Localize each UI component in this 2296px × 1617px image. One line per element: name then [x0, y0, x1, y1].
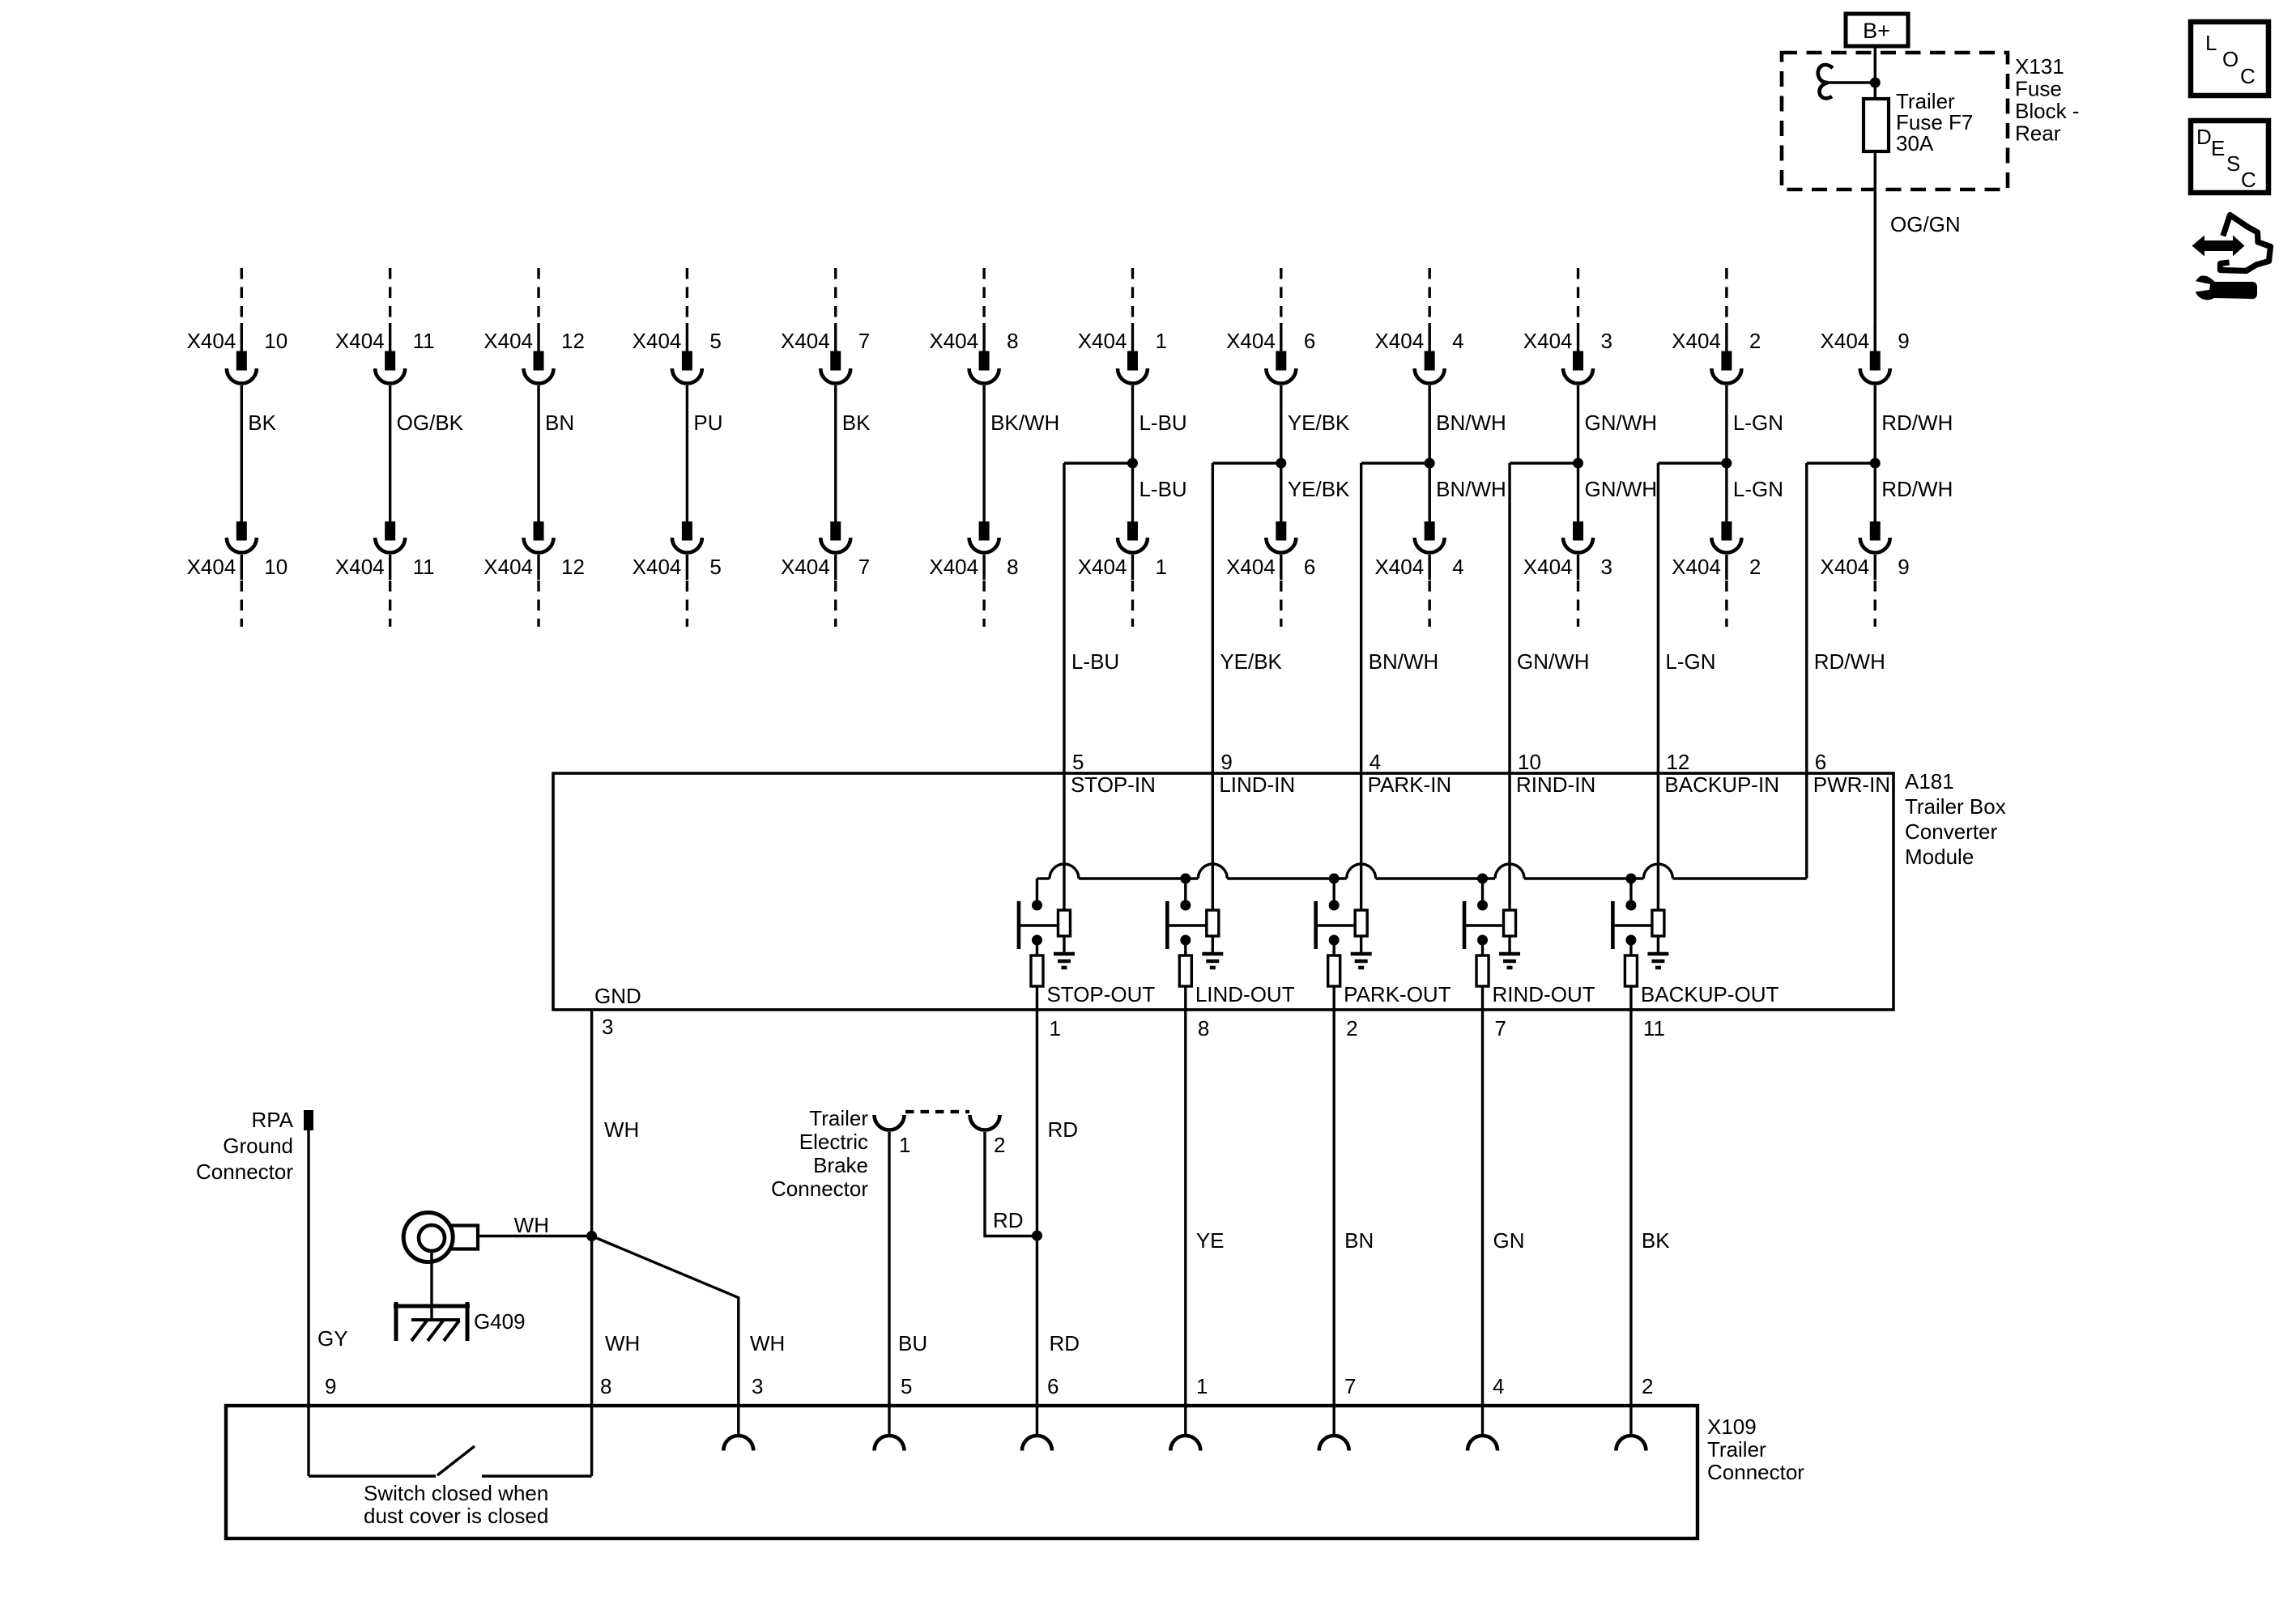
svg-text:RD/WH: RD/WH [1881, 411, 1953, 435]
wire BN [537, 385, 539, 521]
wire RD brake pin 2 to junction [985, 1132, 1037, 1236]
fuse clip hook [1818, 65, 1833, 98]
wire bus start corner [1037, 877, 1050, 879]
DESC box [2191, 121, 2268, 193]
svg-text:Converter: Converter [1905, 819, 1997, 844]
svg-text:9: 9 [1898, 329, 1909, 353]
svg-text:D: D [2196, 125, 2212, 149]
svg-text:1: 1 [899, 1133, 910, 1157]
svg-text:BN/WH: BN/WH [1369, 649, 1439, 674]
connector X404 pin 4 bottom [1374, 521, 1463, 627]
module A181 Trailer Box Converter Module box [553, 773, 1893, 1010]
svg-text:GN/WH: GN/WH [1517, 649, 1590, 674]
ground [1351, 954, 1372, 968]
svg-text:C: C [2240, 64, 2256, 88]
bus hop arc over PARK-IN [1347, 864, 1376, 879]
connector X404 pin 8 top [929, 268, 1018, 384]
svg-text:RD: RD [1049, 1331, 1080, 1355]
wire RD STOP-OUT to X109 [1036, 1010, 1038, 1436]
bus hop arc over BACKUP-IN [1643, 864, 1672, 879]
svg-text:BK: BK [1642, 1228, 1670, 1253]
wire YE to X109 [1184, 1010, 1186, 1436]
wire GY RPA to switch [307, 1130, 309, 1476]
svg-text:STOP-OUT: STOP-OUT [1046, 982, 1155, 1006]
svg-text:12: 12 [561, 329, 585, 353]
connector X404 pin 2 top [1672, 268, 1761, 384]
svg-text:3: 3 [752, 1374, 763, 1398]
svg-text:PARK-IN: PARK-IN [1368, 772, 1452, 797]
svg-text:9: 9 [325, 1374, 336, 1398]
wire PU [686, 385, 688, 521]
wire WH GND to switch [590, 1010, 593, 1476]
svg-text:BACKUP-OUT: BACKUP-OUT [1641, 982, 1779, 1006]
module pin 9 LIND-IN [1212, 750, 1295, 910]
junction bus PARK [1329, 874, 1340, 884]
wire OG/BK [389, 385, 391, 521]
wire branch YE/BK to module [1212, 463, 1281, 773]
svg-text:OG/BK: OG/BK [397, 411, 464, 435]
svg-text:Rear: Rear [2015, 121, 2061, 146]
dashed connector body [905, 1110, 969, 1113]
wire BU to X109 [888, 1132, 890, 1436]
svg-text:X404: X404 [1821, 329, 1870, 353]
wire WH ring to junction [478, 1235, 592, 1237]
svg-text:3: 3 [1601, 555, 1612, 579]
svg-text:11: 11 [1643, 1016, 1665, 1040]
svg-text:L-BU: L-BU [1139, 411, 1186, 435]
svg-text:X404: X404 [1078, 329, 1127, 353]
transistor STOP driver [1019, 900, 1071, 953]
svg-text:8: 8 [1007, 329, 1018, 353]
svg-text:O: O [2222, 47, 2238, 71]
terminal X109 [1467, 1436, 1497, 1451]
junction node RD/WH [1870, 458, 1881, 469]
wire bus drop to transistor [1184, 879, 1186, 905]
service icon arrow [2192, 215, 2271, 300]
label X109 Trailer Connector [1707, 1415, 1804, 1484]
junction bus BACKUP [1625, 874, 1636, 884]
svg-text:X404: X404 [929, 555, 978, 579]
svg-text:X404: X404 [1226, 329, 1276, 353]
wire bus segment [1524, 877, 1643, 879]
svg-text:X404: X404 [187, 555, 236, 579]
svg-text:6: 6 [1815, 750, 1826, 774]
svg-text:3: 3 [602, 1015, 613, 1039]
junction node YE/BK [1276, 458, 1286, 469]
ground [1054, 954, 1075, 968]
bus hop arc over STOP-IN [1050, 864, 1079, 879]
wire GN/WH [1577, 385, 1579, 521]
svg-text:1: 1 [1049, 1016, 1060, 1040]
ground [1647, 954, 1668, 968]
module pin 12 BACKUP-IN [1658, 750, 1779, 910]
svg-text:5: 5 [1072, 750, 1084, 774]
svg-text:7: 7 [1344, 1374, 1356, 1398]
ground [1202, 954, 1223, 968]
svg-text:GN/WH: GN/WH [1585, 477, 1658, 501]
svg-text:X404: X404 [1672, 329, 1721, 353]
svg-text:6: 6 [1304, 555, 1315, 579]
connector X404 pin 10 top [187, 268, 288, 384]
svg-text:Connector: Connector [771, 1177, 868, 1201]
label Trailer Fuse F7 30A [1896, 89, 1973, 155]
svg-text:L-GN: L-GN [1733, 477, 1783, 501]
svg-text:4: 4 [1370, 750, 1381, 774]
svg-text:B+: B+ [1863, 19, 1890, 43]
resistor LIND output [1179, 940, 1191, 1010]
svg-text:X404: X404 [1374, 329, 1424, 353]
svg-text:X109: X109 [1707, 1415, 1757, 1439]
junction in fuse block [1870, 78, 1881, 88]
wire hook to junction [1827, 81, 1875, 83]
junction node L-BU [1127, 458, 1138, 469]
connector X404 pin 12 bottom [483, 521, 585, 627]
resistor RIND output [1476, 940, 1489, 1010]
transistor RIND driver [1464, 900, 1516, 953]
wire bus drop to transistor [1629, 879, 1632, 905]
svg-text:10: 10 [264, 329, 288, 353]
junction node L-GN [1721, 458, 1732, 469]
svg-text:YE: YE [1196, 1228, 1225, 1253]
svg-text:5: 5 [709, 329, 721, 353]
svg-text:Switch closed when: Switch closed when [364, 1481, 548, 1505]
wire L-GN [1725, 385, 1727, 521]
wire bus segment [1376, 877, 1495, 879]
svg-text:X404: X404 [1821, 555, 1870, 579]
svg-text:WH: WH [604, 1117, 639, 1142]
svg-text:RD/WH: RD/WH [1814, 649, 1885, 674]
connector X404 pin 6 top [1226, 268, 1315, 384]
service icon part contour [2221, 215, 2271, 271]
svg-text:X404: X404 [1523, 329, 1573, 353]
transistor BACKUP driver [1612, 900, 1663, 953]
svg-text:YE/BK: YE/BK [1288, 411, 1350, 435]
fuse Trailer Fuse F7 30A [1864, 99, 1889, 151]
svg-text:BN: BN [545, 411, 574, 435]
svg-text:L-GN: L-GN [1733, 411, 1783, 435]
svg-text:11: 11 [413, 329, 435, 353]
svg-text:6: 6 [1047, 1374, 1059, 1398]
resistor PARK output [1328, 940, 1340, 1010]
connector RPA Ground [196, 1108, 313, 1184]
svg-text:LIND-IN: LIND-IN [1219, 772, 1295, 797]
svg-text:L-BU: L-BU [1071, 649, 1119, 674]
svg-text:BN: BN [1344, 1228, 1374, 1253]
svg-text:LIND-OUT: LIND-OUT [1195, 982, 1295, 1006]
wire bus drop to transistor [1481, 879, 1484, 905]
svg-text:Module: Module [1905, 845, 1974, 869]
svg-text:X404: X404 [483, 555, 533, 579]
svg-text:X404: X404 [1523, 555, 1573, 579]
svg-text:8: 8 [1198, 1016, 1209, 1040]
svg-text:Brake: Brake [813, 1153, 868, 1177]
connector X404 pin 7 top [781, 268, 870, 384]
module pin 5 STOP-IN [1064, 750, 1156, 910]
wire BN/WH [1428, 385, 1430, 521]
svg-text:dust cover is closed: dust cover is closed [364, 1504, 548, 1528]
svg-text:WH: WH [750, 1331, 785, 1355]
connector trailer brake terminal 1 [875, 1115, 905, 1130]
connector X404 pin 10 bottom [187, 521, 288, 627]
svg-text:STOP-IN: STOP-IN [1071, 772, 1156, 797]
svg-text:2: 2 [1642, 1374, 1653, 1398]
fuse block X131 dashed box [1782, 53, 2008, 189]
module pin 6 PWR-IN [1807, 750, 1890, 879]
svg-text:11: 11 [413, 555, 435, 579]
connector X404 pin 9 top [1821, 323, 1910, 384]
transistor PARK driver [1316, 900, 1368, 953]
svg-text:GN/WH: GN/WH [1585, 411, 1658, 435]
terminal X109 [1022, 1436, 1052, 1451]
terminal X109 [1616, 1436, 1646, 1451]
svg-text:G409: G409 [474, 1309, 526, 1334]
svg-text:S: S [2226, 151, 2240, 176]
svg-text:1: 1 [1155, 555, 1166, 579]
svg-text:E: E [2211, 136, 2225, 160]
svg-text:BN/WH: BN/WH [1436, 477, 1506, 501]
resistor STOP output [1031, 940, 1043, 1010]
svg-text:X404: X404 [483, 329, 533, 353]
svg-text:X131: X131 [2015, 54, 2064, 79]
svg-text:BK: BK [842, 411, 871, 435]
svg-text:L: L [2205, 31, 2217, 55]
connector X404 pin 5 bottom [633, 521, 722, 627]
svg-text:X404: X404 [781, 329, 830, 353]
svg-text:L-BU: L-BU [1139, 477, 1186, 501]
module pin 11 BACKUP-OUT [1641, 982, 1779, 1040]
svg-text:RIND-OUT: RIND-OUT [1493, 982, 1595, 1006]
wire ring to ground [430, 1251, 432, 1321]
junction node WH [586, 1231, 597, 1241]
junction node RD [1032, 1231, 1042, 1241]
svg-text:10: 10 [264, 555, 288, 579]
connector X404 pin 1 bottom [1078, 521, 1167, 627]
svg-text:4: 4 [1452, 555, 1463, 579]
connector X404 pin 9 bottom [1821, 521, 1910, 627]
label X131 Fuse Block - Rear [2015, 54, 2079, 146]
connector X109 box [226, 1406, 1698, 1538]
svg-text:3: 3 [1601, 329, 1612, 353]
wire YE/BK [1280, 385, 1282, 521]
wire BK to X109 [1629, 1010, 1632, 1436]
label switch note [364, 1481, 548, 1528]
ground [1499, 954, 1520, 968]
wire branch L-GN to module [1658, 463, 1726, 773]
svg-text:9: 9 [1220, 750, 1232, 774]
label Trailer Electric Brake Connector [771, 1106, 868, 1201]
module pin 7 RIND-OUT [1493, 982, 1595, 1040]
svg-text:10: 10 [1518, 750, 1541, 774]
svg-text:WH: WH [514, 1213, 549, 1237]
svg-text:RD: RD [1047, 1117, 1078, 1142]
ground G409 [394, 1302, 470, 1341]
wire L-BU [1131, 385, 1134, 521]
svg-text:A181: A181 [1905, 769, 1954, 794]
svg-text:BK: BK [248, 411, 276, 435]
svg-text:BN/WH: BN/WH [1436, 411, 1506, 435]
terminal X109 [1319, 1436, 1349, 1451]
svg-text:1: 1 [1196, 1374, 1208, 1398]
junction bus LIND [1180, 874, 1191, 884]
svg-text:12: 12 [561, 555, 585, 579]
power symbol B+ [1846, 14, 1908, 46]
connector X404 pin 4 top [1374, 268, 1463, 384]
svg-text:BU: BU [898, 1331, 927, 1355]
svg-text:Electric: Electric [799, 1130, 868, 1154]
svg-text:2: 2 [994, 1133, 1005, 1157]
junction node GN/WH [1573, 458, 1583, 469]
svg-text:30A: 30A [1896, 131, 1934, 155]
svg-text:X404: X404 [633, 329, 682, 353]
svg-text:C: C [2241, 168, 2256, 192]
svg-text:Connector: Connector [196, 1160, 293, 1184]
wire WH diagonal to X109 pin 3 [592, 1236, 739, 1436]
wire BK [241, 385, 243, 521]
svg-text:7: 7 [858, 329, 870, 353]
module pin 8 LIND-OUT [1195, 982, 1295, 1040]
wire branch L-BU to module [1064, 463, 1133, 773]
wire bus drop to transistor [1332, 879, 1335, 905]
module pin 10 RIND-IN [1510, 750, 1595, 910]
svg-text:X404: X404 [781, 555, 830, 579]
svg-text:2: 2 [1749, 329, 1761, 353]
svg-text:RIND-IN: RIND-IN [1516, 772, 1595, 797]
wire BK [834, 385, 837, 521]
svg-text:Trailer: Trailer [809, 1106, 868, 1130]
svg-text:12: 12 [1666, 750, 1689, 774]
connector X404 pin 12 top [483, 268, 585, 384]
svg-text:PU: PU [693, 411, 722, 435]
svg-text:PWR-IN: PWR-IN [1813, 772, 1890, 797]
bus hop arc over RIND-IN [1495, 864, 1524, 879]
svg-text:4: 4 [1452, 329, 1463, 353]
svg-text:RD: RD [993, 1208, 1024, 1232]
svg-text:X404: X404 [335, 555, 385, 579]
svg-text:2: 2 [1749, 555, 1761, 579]
connector X404 pin 11 top [335, 268, 435, 384]
svg-text:PARK-OUT: PARK-OUT [1344, 982, 1451, 1006]
svg-text:OG/GN: OG/GN [1890, 212, 1961, 236]
junction bus RIND [1477, 874, 1488, 884]
svg-text:GY: GY [317, 1326, 348, 1351]
wire bus drop to transistor [1036, 879, 1038, 905]
wire BN to X109 [1332, 1010, 1335, 1436]
module pin 4 PARK-IN [1361, 750, 1452, 910]
wire bus segment [1079, 877, 1198, 879]
module pin 1 STOP-OUT [1046, 982, 1155, 1040]
service icon wrench [2195, 276, 2257, 300]
svg-text:2: 2 [1346, 1016, 1357, 1040]
junction node BN/WH [1425, 458, 1435, 469]
svg-text:X404: X404 [633, 555, 682, 579]
svg-text:5: 5 [901, 1374, 912, 1398]
svg-text:6: 6 [1304, 329, 1315, 353]
svg-text:7: 7 [858, 555, 870, 579]
LOC box [2191, 22, 2268, 96]
resistor BACKUP output [1625, 940, 1637, 1010]
svg-text:GN: GN [1493, 1228, 1525, 1253]
wire OG/GN fuse to X404-9 [1874, 151, 1876, 351]
svg-text:YE/BK: YE/BK [1220, 649, 1282, 674]
svg-text:YE/BK: YE/BK [1288, 477, 1350, 501]
wire branch RD/WH to module [1807, 463, 1876, 773]
svg-text:X404: X404 [1672, 555, 1721, 579]
svg-text:9: 9 [1898, 555, 1909, 579]
svg-text:Trailer Box: Trailer Box [1905, 794, 2006, 819]
connector X404 pin 3 bottom [1523, 521, 1612, 627]
wire B+ to fuse [1874, 46, 1876, 99]
svg-text:RPA: RPA [251, 1108, 293, 1132]
svg-text:1: 1 [1155, 329, 1166, 353]
svg-text:L-GN: L-GN [1665, 649, 1715, 674]
connector X404 pin 3 top [1523, 268, 1612, 384]
wire RD/WH [1874, 385, 1876, 521]
terminal X109 [1170, 1436, 1200, 1451]
svg-text:X404: X404 [1078, 555, 1127, 579]
connector trailer brake terminal 2 [970, 1115, 1000, 1130]
wire bus segment [1227, 877, 1346, 879]
wire branch BN/WH to module [1361, 463, 1430, 773]
connector X404 pin 1 top [1078, 268, 1167, 384]
wire branch GN/WH to module [1510, 463, 1578, 773]
svg-text:BK/WH: BK/WH [990, 411, 1059, 435]
module pin 2 PARK-OUT [1344, 982, 1451, 1040]
terminal X109 [875, 1436, 905, 1451]
svg-text:Trailer: Trailer [1707, 1437, 1766, 1462]
svg-text:X404: X404 [1226, 555, 1276, 579]
connector X404 pin 2 bottom [1672, 521, 1761, 627]
switch dust cover [309, 1446, 592, 1476]
svg-text:Block -: Block - [2015, 99, 2079, 123]
svg-text:X404: X404 [187, 329, 236, 353]
svg-text:X404: X404 [1374, 555, 1424, 579]
svg-text:X404: X404 [929, 329, 978, 353]
svg-text:GND: GND [594, 984, 641, 1008]
svg-text:Fuse: Fuse [2015, 77, 2062, 101]
bus hop arc over LIND-IN [1198, 864, 1227, 879]
wire BK/WH [982, 385, 985, 521]
svg-text:5: 5 [709, 555, 721, 579]
svg-text:4: 4 [1493, 1374, 1504, 1398]
wire GN to X109 [1481, 1010, 1484, 1436]
connector X404 pin 6 bottom [1226, 521, 1315, 627]
connector X404 pin 11 bottom [335, 521, 435, 627]
svg-text:WH: WH [605, 1331, 640, 1355]
svg-text:RD/WH: RD/WH [1881, 477, 1953, 501]
connector X404 pin 5 top [633, 268, 722, 384]
ring terminal [403, 1213, 478, 1262]
connector X404 pin 7 bottom [781, 521, 870, 627]
svg-text:Connector: Connector [1707, 1460, 1804, 1484]
svg-text:Ground: Ground [223, 1134, 293, 1158]
svg-text:8: 8 [1007, 555, 1018, 579]
svg-text:7: 7 [1495, 1016, 1506, 1040]
terminal X109 [723, 1436, 753, 1451]
wire bus to PWR-IN [1672, 877, 1806, 879]
connector X404 pin 8 bottom [929, 521, 1018, 627]
label A181 Trailer Box Converter Module [1905, 769, 2006, 869]
svg-text:8: 8 [600, 1374, 611, 1398]
svg-text:X404: X404 [335, 329, 385, 353]
transistor LIND driver [1167, 900, 1219, 953]
svg-text:BACKUP-IN: BACKUP-IN [1664, 772, 1779, 797]
